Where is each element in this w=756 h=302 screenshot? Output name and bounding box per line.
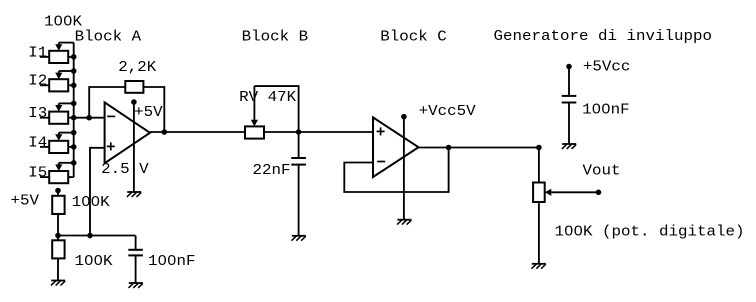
svg-text:+Vcc5V: +Vcc5V	[419, 104, 476, 120]
svg-text:Block A: Block A	[75, 30, 142, 46]
svg-text:100K: 100K	[44, 15, 82, 31]
svg-text:I3: I3	[28, 106, 47, 122]
svg-text:Vout: Vout	[583, 164, 621, 180]
svg-text:2.5 V: 2.5 V	[101, 162, 149, 178]
svg-text:I2: I2	[28, 74, 47, 90]
svg-text:Generatore di inviluppo: Generatore di inviluppo	[494, 29, 713, 45]
svg-text:100K: 100K	[75, 254, 113, 270]
svg-text:I5: I5	[28, 166, 47, 182]
svg-text:22nF: 22nF	[253, 163, 291, 179]
svg-text:I4: I4	[28, 135, 47, 151]
svg-text:+5V: +5V	[11, 194, 40, 210]
svg-text:Block C: Block C	[380, 30, 447, 46]
svg-text:Block B: Block B	[242, 30, 309, 46]
svg-text:+5V: +5V	[134, 105, 163, 121]
svg-text:I1: I1	[28, 45, 47, 61]
svg-text:+5Vcc: +5Vcc	[583, 60, 631, 76]
svg-text:100K: 100K	[72, 195, 110, 211]
svg-text:RV 47K: RV 47K	[239, 90, 296, 106]
svg-text:2,2K: 2,2K	[118, 60, 156, 76]
svg-text:100K (pot. digitale): 100K (pot. digitale)	[555, 225, 745, 241]
